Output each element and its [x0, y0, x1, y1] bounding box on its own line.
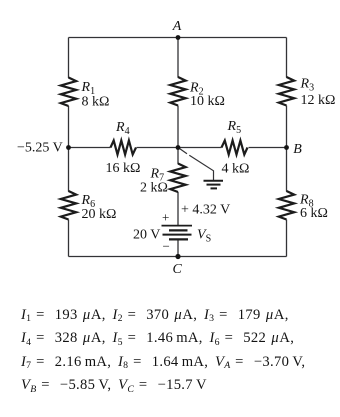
- svg-text:16 kΩ: 16 kΩ: [106, 161, 141, 176]
- wire center R7 to battery: [177, 192, 179, 225]
- node C junction dot: [175, 254, 180, 259]
- svg-text:20 kΩ: 20 kΩ: [82, 207, 117, 222]
- svg-text:6 kΩ: 6 kΩ: [300, 206, 328, 221]
- wire battery to node C: [177, 241, 179, 257]
- resistor R6 zigzag: [61, 191, 76, 219]
- wire right branch upper: [286, 38, 288, 78]
- svg-text:A: A: [172, 19, 182, 34]
- resistor R1 zigzag: [61, 78, 76, 107]
- svg-text:C: C: [173, 262, 183, 277]
- wire right branch lower: [286, 220, 288, 257]
- node -5.25V junction dot: [66, 145, 71, 150]
- resistor R5 zigzag: [222, 141, 248, 155]
- resistor R8 zigzag: [279, 191, 294, 219]
- wire middle row: R4 to center node: [137, 147, 179, 149]
- svg-text:12 kΩ: 12 kΩ: [301, 93, 336, 108]
- node center junction dot: [176, 145, 181, 150]
- svg-text:−: −: [163, 239, 170, 254]
- wire middle row: center node to R5: [178, 147, 222, 149]
- node B junction dot: [284, 145, 289, 150]
- resistor R2 zigzag: [170, 77, 185, 106]
- svg-text:+: +: [162, 210, 169, 225]
- resistor R3 zigzag: [279, 77, 294, 106]
- wire bottom horizontal: [69, 256, 287, 258]
- wire middle row: left node to R4: [69, 147, 111, 149]
- wire top horizontal: [69, 37, 287, 39]
- svg-text:VS: VS: [197, 228, 211, 245]
- wire diagonal from center node to ground: [180, 149, 214, 181]
- wire left branch lower: [68, 220, 70, 257]
- results text line 3: [21, 354, 305, 370]
- wire left branch upper: [68, 38, 70, 79]
- wire right branch middle: [286, 106, 288, 192]
- results text line 4: [21, 377, 207, 393]
- svg-text:R5: R5: [227, 119, 242, 136]
- results text line 1: [21, 307, 289, 323]
- svg-text:20 V: 20 V: [133, 228, 160, 243]
- wire middle row: R5 to node B: [249, 147, 287, 149]
- svg-text:10 kΩ: 10 kΩ: [190, 94, 225, 109]
- svg-text:R3: R3: [300, 77, 315, 94]
- svg-text:R4: R4: [115, 120, 130, 137]
- voltage source Vs battery plates: [162, 226, 193, 240]
- svg-text:2 kΩ: 2 kΩ: [140, 181, 168, 196]
- svg-text:B: B: [293, 142, 302, 157]
- svg-text:+ 4.32 V: + 4.32 V: [181, 203, 230, 218]
- svg-text:8 kΩ: 8 kΩ: [82, 95, 110, 110]
- resistor R4 zigzag: [111, 141, 137, 155]
- node A junction dot: [176, 35, 181, 40]
- results text line 2: [21, 330, 294, 346]
- wire left branch middle: [68, 106, 70, 192]
- resistor R7 zigzag: [170, 164, 185, 192]
- svg-text:4 kΩ: 4 kΩ: [222, 162, 250, 177]
- wire center branch upper: [177, 38, 179, 78]
- wire center branch middle: [177, 106, 179, 165]
- ground symbol: [204, 181, 224, 189]
- svg-text:−5.25 V: −5.25 V: [17, 141, 63, 156]
